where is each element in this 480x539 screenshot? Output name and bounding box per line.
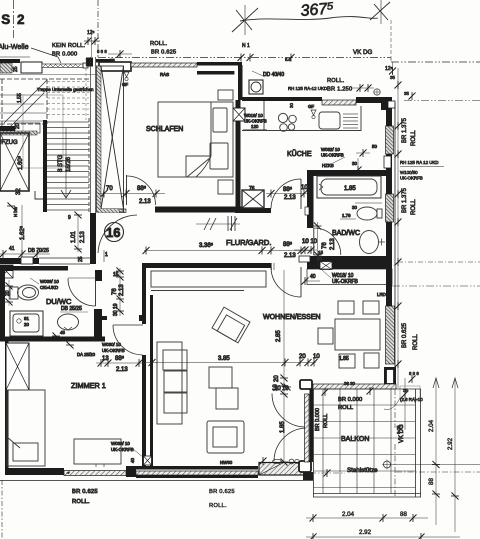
wall below upper flight: [0, 126, 15, 131]
svg-text:2.13: 2.13: [330, 238, 336, 250]
svg-text:W016/ 10: W016/ 10: [244, 113, 263, 118]
sill line: [0, 480, 313, 482]
svg-text:BR 0.000: BR 0.000: [338, 397, 362, 403]
armchair single bottom: [207, 421, 244, 453]
svg-text:1.85: 1.85: [344, 186, 356, 192]
small dims above french door: [283, 384, 291, 391]
svg-text:8 9 8: 8 9 8: [409, 371, 419, 376]
bathtub: [317, 176, 381, 198]
svg-text:32: 32: [16, 188, 22, 195]
niche lines right of wc: [355, 202, 382, 204]
dashed flight above: [0, 78, 91, 80]
svg-text:W030/ 10: W030/ 10: [111, 441, 130, 446]
svg-text:RH 125 RA 12 UKD: RH 125 RA 12 UKD: [400, 160, 439, 165]
svg-text:DB 25/25: DB 25/25: [61, 306, 82, 312]
svg-text:Treppe Unterseite gestrichen: Treppe Unterseite gestrichen: [37, 87, 94, 92]
door: [113, 324, 143, 326]
SE corner block: [384, 367, 396, 386]
svg-text:US 2: US 2: [0, 12, 26, 27]
wardrobe: [151, 271, 266, 287]
wohnen east wall w/ french door: [300, 380, 312, 389]
svg-text:W032/ 10: W032/ 10: [321, 147, 340, 152]
svg-text:ROLL: ROLL: [411, 199, 417, 215]
kitchen door: [300, 179, 302, 209]
vent box: [249, 80, 263, 94]
svg-text:12⁵: 12⁵: [385, 66, 393, 72]
dim line 2.92: [306, 536, 460, 538]
dashed upper flight treads: [47, 58, 89, 120]
svg-text:BR 0.625: BR 0.625: [72, 489, 98, 495]
washbasin: [58, 314, 79, 330]
svg-text:BR 0.000: BR 0.000: [315, 408, 321, 431]
schlafen door leaf: [126, 175, 128, 205]
svg-text:15: 15: [113, 272, 119, 278]
svg-text:20: 20: [24, 322, 29, 327]
pillow 2: [210, 143, 228, 169]
svg-text:41: 41: [9, 246, 15, 252]
small ticks top: [322, 388, 329, 396]
left building edge line: [13, 0, 15, 38]
desk: [74, 439, 121, 464]
svg-text:367⁵: 367⁵: [300, 0, 335, 20]
window essen east 3: [386, 306, 395, 364]
svg-text:BR 1.250: BR 1.250: [327, 87, 352, 93]
svg-text:10: 10: [274, 386, 281, 392]
svg-text:OK=UKD: OK=UKD: [40, 285, 58, 290]
svg-text:10: 10: [302, 239, 309, 245]
flur dim line: [144, 250, 312, 252]
grid vertical: [322, 389, 324, 494]
svg-text:W030/ 10: W030/ 10: [102, 342, 121, 347]
svg-text:ROLL: ROLL: [323, 414, 329, 428]
svg-text:BAD/WC: BAD/WC: [332, 230, 360, 237]
stove 4 burners: [278, 113, 287, 122]
svg-text:UK-OKRFB: UK-OKRFB: [244, 119, 267, 124]
svg-text:GF: GF: [308, 104, 314, 109]
svg-text:76: 76: [249, 186, 255, 192]
wall kuche top right corner: [356, 97, 386, 103]
wall below landing: [0, 258, 21, 264]
svg-text:(2.6 RA)-10: (2.6 RA)-10: [400, 397, 423, 402]
svg-text:3.85: 3.85: [218, 356, 230, 362]
svg-text:10: 10: [313, 354, 320, 360]
SW post of wohnen east wall: [299, 461, 311, 472]
svg-text:ROLL.: ROLL.: [327, 78, 345, 84]
svg-text:25: 25: [78, 256, 84, 262]
svg-text:W100/50: W100/50: [400, 170, 418, 175]
svg-text:SCHLAFEN: SCHLAFEN: [146, 126, 183, 133]
svg-text:3.36⁵: 3.36⁵: [199, 242, 214, 249]
wall stub above schlafen: [96, 59, 114, 63]
down arrow: [65, 128, 67, 197]
wc toilet: [357, 207, 377, 220]
pillow 1: [213, 108, 227, 132]
svg-text:88⁵: 88⁵: [115, 355, 125, 362]
upper treads: [0, 94, 40, 96]
landing step: [35, 191, 43, 199]
outline: [313, 389, 315, 497]
bed: [158, 102, 233, 177]
wall schlafen top right: [197, 62, 242, 66]
east wall segments: [386, 108, 392, 126]
gf marker kitchen: [311, 110, 316, 115]
zimmer west pillar: [6, 343, 29, 390]
svg-text:40: 40: [130, 458, 135, 463]
wall top-left stair hall: [0, 56, 30, 58]
armchair squares: [209, 367, 232, 388]
svg-text:VK DG: VK DG: [399, 424, 405, 443]
svg-text:45: 45: [317, 256, 322, 261]
flur/wohnen top wall: [142, 263, 271, 268]
svg-text:HZKB: HZKB: [322, 163, 334, 168]
bottom wall zimmer: [5, 468, 64, 475]
svg-text:2.13: 2.13: [116, 367, 128, 373]
blanket fold: [186, 156, 211, 177]
svg-text:ROLL.: ROLL.: [72, 499, 90, 505]
svg-text:16: 16: [106, 225, 120, 240]
stairs lower flight: [43, 120, 47, 212]
kitchen/bath divider: [313, 170, 387, 176]
du/wc door dim chain: [119, 268, 121, 316]
svg-text:ROLL: ROLL: [411, 130, 417, 146]
dining table: [335, 319, 380, 350]
svg-text:Stahlstütze: Stahlstütze: [347, 467, 378, 474]
soffit below bath: [307, 269, 392, 285]
sink: [319, 112, 340, 129]
svg-text:2.04: 2.04: [428, 419, 435, 432]
counter left: [242, 130, 361, 132]
svg-text:35: 35: [390, 75, 395, 80]
break line: [4, 80, 47, 123]
window kuche: [322, 100, 356, 105]
svg-text:2.13: 2.13: [139, 199, 151, 205]
stair eye outline: [23, 95, 63, 168]
svg-text:9: 9: [68, 215, 71, 221]
svg-text:88⁵: 88⁵: [283, 241, 293, 248]
apartment number: [105, 223, 124, 242]
svg-text:DU/WC: DU/WC: [46, 297, 72, 306]
svg-text:WOHNEN/ESSEN: WOHNEN/ESSEN: [263, 314, 321, 321]
svg-text:2.92: 2.92: [447, 437, 454, 450]
svg-text:LRD: LRD: [377, 292, 386, 297]
dim line 2.04 / 88: [306, 517, 428, 519]
bath door leaf: [313, 228, 315, 255]
vertical dim 2.85: [283, 270, 285, 394]
svg-text:20: 20: [299, 354, 306, 360]
svg-text:20: 20: [274, 375, 280, 382]
svg-text:2.04: 2.04: [342, 511, 355, 518]
svg-text:45: 45: [60, 330, 65, 335]
bath south wall: [307, 256, 392, 269]
svg-text:ROLL: ROLL: [413, 334, 419, 350]
svg-text:20: 20: [15, 123, 21, 129]
svg-text:120: 120: [251, 124, 259, 129]
window schlafen top: [131, 63, 197, 67]
bath west wall: [307, 170, 314, 228]
svg-text:40: 40: [310, 274, 316, 280]
shaft x-box 76: [242, 190, 264, 208]
landing box: [15, 123, 40, 133]
svg-text:18/26: 18/26: [66, 156, 72, 172]
chairs: [338, 301, 354, 314]
svg-text:25: 25: [13, 66, 19, 72]
svg-text:1.55: 1.55: [17, 93, 23, 103]
wohnen west wall: [142, 263, 146, 324]
svg-text:BR 0.000: BR 0.000: [52, 52, 77, 58]
svg-text:GF: GF: [122, 82, 128, 87]
svg-text:2.13: 2.13: [284, 253, 296, 259]
svg-text:36 30: 36 30: [344, 381, 356, 386]
svg-text:75: 75: [110, 58, 115, 63]
svg-text:RH 125 RA-12 UKD: RH 125 RA-12 UKD: [288, 86, 327, 91]
svg-text:RAS: RAS: [160, 72, 169, 77]
svg-text:1.79: 1.79: [342, 213, 351, 218]
svg-text:DD 40/40: DD 40/40: [263, 72, 284, 78]
svg-text:FLUR/GARD.: FLUR/GARD.: [226, 238, 271, 247]
svg-text:2.13: 2.13: [119, 284, 125, 296]
right vertical dims: [435, 378, 437, 525]
bottom wall wohnen: [136, 466, 258, 470]
svg-text:ROLL.: ROLL.: [209, 503, 227, 509]
vk line bottom left: [1, 480, 3, 539]
svg-text:UK-OKRFB: UK-OKRFB: [111, 447, 134, 452]
nightstand top: [218, 90, 233, 100]
svg-text:W036/ 10: W036/ 10: [40, 279, 59, 284]
svg-text:30: 30: [352, 205, 357, 210]
svg-text:50: 50: [372, 144, 377, 149]
right top dims: [392, 62, 394, 74]
svg-text:2.85: 2.85: [276, 330, 282, 342]
entry door arc: [98, 215, 137, 253]
balcony door threshold: [259, 463, 308, 476]
svg-text:ZIMMER 1: ZIMMER 1: [71, 381, 106, 390]
svg-text:BR 0.625: BR 0.625: [209, 489, 235, 495]
door arc: [68, 277, 96, 279]
svg-text:88⁵: 88⁵: [137, 185, 147, 192]
svg-text:AUFZUG: AUFZUG: [0, 140, 18, 146]
french doors to balcony: [272, 394, 305, 428]
svg-text:10: 10: [282, 386, 289, 392]
window bath east 1: [386, 126, 394, 154]
svg-text:1.62⁵: 1.62⁵: [19, 225, 26, 240]
svg-text:BR 1.375: BR 1.375: [402, 187, 408, 213]
367.5 dim: [240, 17, 378, 21]
svg-text:2.92: 2.92: [359, 529, 372, 536]
svg-text:8 8: 8 8: [285, 57, 292, 62]
dining south window band: [313, 384, 396, 389]
svg-text:2.13: 2.13: [80, 231, 86, 243]
schlafen door arc: [127, 176, 156, 205]
bed: [7, 390, 45, 466]
svg-text:6 8 8: 6 8 8: [97, 49, 107, 54]
sofa: [157, 342, 182, 424]
svg-text:BR 0.625: BR 0.625: [402, 322, 408, 348]
shower: [10, 311, 43, 336]
svg-text:15: 15: [318, 250, 323, 255]
svg-text:88: 88: [428, 478, 435, 485]
svg-text:BALKON: BALKON: [341, 436, 369, 443]
svg-text:1.60⁵: 1.60⁵: [17, 155, 24, 170]
svg-text:88⁵: 88⁵: [283, 186, 293, 193]
svg-text:Alu-Welle: Alu-Welle: [0, 42, 29, 51]
svg-text:35: 35: [404, 91, 409, 96]
wall kuche top: [238, 65, 243, 100]
svg-text:76: 76: [322, 242, 328, 249]
svg-text:ROLL: ROLL: [338, 405, 354, 411]
washbasin: [360, 231, 379, 254]
svg-text:BR 1.375: BR 1.375: [402, 117, 408, 143]
du/wc walls: [0, 265, 13, 271]
svg-text:N bw: N bw: [13, 206, 18, 217]
svg-text:KÜCHE: KÜCHE: [287, 150, 312, 158]
svg-text:1.01: 1.01: [71, 231, 77, 243]
svg-text:UK-OKRFB: UK-OKRFB: [332, 279, 359, 285]
wall schlafen/kuche: [236, 100, 241, 213]
window wc east 2: [386, 194, 394, 222]
svg-text:N 1: N 1: [242, 43, 250, 49]
elevator: [0, 133, 29, 191]
svg-text:30: 30: [352, 161, 357, 166]
svg-text:KEIN ROLL.: KEIN ROLL.: [52, 43, 86, 49]
svg-text:DA 25/20: DA 25/20: [77, 352, 96, 357]
zimmer west wall: [5, 341, 9, 474]
svg-text:VK DG: VK DG: [353, 49, 372, 56]
svg-text:30 19: 30 19: [113, 303, 119, 316]
lintel box: [99, 62, 131, 71]
svg-text:BR 0.625: BR 0.625: [151, 50, 176, 56]
svg-text:1: 1: [105, 252, 108, 258]
rotated armchair: [212, 307, 250, 343]
svg-text:20: 20: [5, 290, 11, 296]
svg-text:12⁵: 12⁵: [87, 30, 95, 36]
nightstand bottom: [218, 180, 233, 194]
treads: [47, 122, 89, 210]
svg-text:8 STG: 8 STG: [58, 154, 64, 172]
flur upper dim row: [196, 223, 240, 225]
toilet: [10, 287, 18, 299]
svg-text:UK-OKRFB: UK-OKRFB: [400, 176, 423, 181]
svg-text:91: 91: [24, 316, 29, 321]
schlafen bottom wall: [99, 209, 126, 213]
grid horizontal: [314, 404, 416, 406]
wohnen door: [300, 267, 302, 297]
svg-text:30: 30: [289, 103, 294, 108]
svg-text:1.85: 1.85: [280, 421, 286, 433]
svg-text:ROLL.: ROLL.: [150, 41, 168, 47]
svg-text:UK-OKRFB: UK-OKRFB: [102, 348, 125, 353]
svg-text:NW60: NW60: [220, 460, 233, 465]
kuche bottom wall: [235, 208, 271, 213]
survey marker GF: [124, 72, 129, 77]
svg-text:2.13: 2.13: [284, 195, 296, 201]
svg-text:88: 88: [400, 511, 407, 518]
svg-text:UK-OKRFB: UK-OKRFB: [321, 153, 344, 158]
alu-welle corrugated band: [42, 64, 83, 68]
svg-text:76: 76: [112, 288, 118, 295]
svg-text:1.85: 1.85: [339, 356, 349, 362]
